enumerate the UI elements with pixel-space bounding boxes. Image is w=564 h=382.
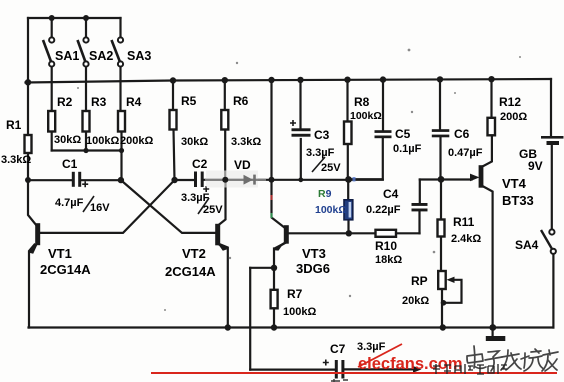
node top rail SA1: [49, 15, 55, 21]
artifact green tint on VT3 collector wire: [271, 213, 273, 218]
caption small text row: [433, 364, 507, 374]
wire VT3 emitter down: [274, 243, 286, 268]
node R4 tie junction: [119, 148, 124, 153]
node bus R12 junction: [488, 76, 494, 82]
wire R9 bottom lead: [347, 220, 349, 234]
wire VT3 emitter row left: [250, 267, 274, 269]
artifact red tint on VT3 collector wire: [271, 195, 273, 200]
node R6-VT2 collector junction: [222, 177, 228, 183]
artifact specks: [77, 49, 521, 311]
svg-text:RP: RP: [411, 274, 428, 288]
wire R11 top lead: [440, 179, 442, 219]
potentiometer RP body: [438, 271, 446, 289]
wire left rail to VT1 collector: [28, 180, 37, 226]
wire C6 top lead: [439, 81, 441, 129]
wire battery to SA4: [551, 145, 553, 230]
artifact blue speck near R8 junction: [353, 177, 356, 182]
wire R9 top lead: [347, 180, 349, 200]
node VT3 base R9 junction: [346, 230, 352, 236]
svg-text:200kΩ: 200kΩ: [120, 135, 153, 147]
svg-text:SA2: SA2: [89, 49, 113, 63]
svg-text:25V: 25V: [321, 162, 341, 174]
svg-text:R9: R9: [318, 188, 332, 200]
capacitor C2: [194, 172, 204, 188]
watermark handwritten char 电: [467, 346, 486, 368]
node left rail R1-C1 junction: [25, 177, 31, 183]
node bus left junction: [25, 79, 31, 85]
resistor R3: [83, 111, 90, 132]
svg-text:R11: R11: [453, 215, 475, 229]
svg-text:25V: 25V: [203, 204, 223, 216]
wire left rail mid: [27, 153, 29, 180]
wire RP wiper bracket: [444, 280, 462, 303]
svg-text:VT3: VT3: [302, 246, 326, 261]
svg-text:3.3kΩ: 3.3kΩ: [1, 154, 31, 166]
watermark handwritten char 发: [501, 350, 521, 370]
wire C4 bottom lead: [418, 212, 420, 234]
wire C3 bottom lead: [300, 139, 302, 180]
value slash C3: [312, 157, 325, 172]
wire SA1 drop: [51, 18, 53, 38]
resistor R7: [271, 290, 278, 309]
wire left rail upper: [27, 18, 29, 135]
wire VT1 emitter down: [29, 245, 35, 328]
node rail R7 junction: [271, 324, 277, 330]
node VT3 emitter junction: [271, 265, 277, 271]
wire top switch rail: [28, 17, 121, 19]
node bus R8 junction: [344, 77, 350, 83]
wire VD row C2 to C5 corner: [204, 179, 383, 181]
wire VT4 B2 to R12: [482, 135, 492, 167]
node bus C6 junction: [437, 76, 443, 82]
svg-text:9V: 9V: [528, 159, 543, 173]
wire down to C7 row: [249, 268, 251, 370]
watermark handwritten char 烧: [521, 349, 544, 371]
svg-text:C5: C5: [395, 127, 411, 141]
svg-text:16V: 16V: [90, 202, 110, 214]
svg-text:0.1µF: 0.1µF: [393, 143, 422, 155]
wire R3 bottom: [85, 132, 87, 151]
wire R4 tie down to C1 node: [120, 151, 122, 181]
node VD row VT3 collector junction: [269, 177, 275, 183]
resistor R10: [376, 230, 397, 237]
wire R6 top lead: [224, 81, 226, 111]
wire R6 bottom lead: [224, 130, 226, 180]
wire C5 bottom lead to node: [349, 139, 383, 180]
svg-text:C2: C2: [192, 157, 208, 171]
svg-text:BT33: BT33: [502, 193, 534, 208]
wire R7 top lead: [273, 268, 275, 290]
wire SA3 to R4: [119, 67, 121, 112]
wire C5 top lead: [382, 81, 384, 130]
watermark handwritten char 子: [485, 351, 502, 371]
svg-text:3.3µF: 3.3µF: [357, 341, 386, 353]
wire R12 top lead: [490, 81, 492, 118]
transistor VT2: [215, 224, 227, 251]
wire C7 output arrow line: [345, 368, 417, 370]
wire R2 bottom: [51, 132, 53, 151]
node rail ground junction: [489, 324, 496, 331]
svg-text:R7: R7: [287, 287, 303, 301]
battery GB: [541, 136, 564, 145]
capacitor C1 polarity plus: [82, 181, 88, 187]
wire R8 top lead: [346, 81, 348, 122]
svg-text:C7: C7: [330, 342, 346, 356]
svg-text:4.7µF: 4.7µF: [55, 197, 84, 209]
wire bus to VT3 collector: [272, 81, 286, 229]
switch SA2: [78, 37, 89, 66]
switch SA4: [541, 229, 556, 254]
wire base row VT3 to R10: [289, 232, 376, 234]
node rail VT2 emitter junction: [225, 324, 231, 330]
wire UJT emitter node horizontal: [420, 178, 472, 180]
svg-text:C3: C3: [314, 128, 330, 142]
transistor VT4 unijunction: [470, 165, 483, 188]
svg-text:20kΩ: 20kΩ: [402, 295, 429, 307]
svg-text:VT1: VT1: [48, 246, 72, 261]
node R3 tie junction: [83, 148, 88, 153]
capacitor C4: [412, 203, 428, 211]
wire SA2 to R3: [85, 67, 87, 112]
resistor R5: [170, 110, 177, 130]
wire C6 bottom lead: [439, 138, 441, 179]
watermark handwritten char 友: [542, 350, 558, 371]
artifact partial glyphs below C7: [331, 379, 348, 382]
svg-text:0.22µF: 0.22µF: [366, 204, 401, 216]
resistor R8: [344, 122, 352, 145]
node rail RP junction: [440, 324, 446, 330]
wire SA2 drop: [85, 18, 87, 38]
svg-text:R12: R12: [499, 95, 521, 109]
svg-text:R5: R5: [181, 94, 197, 108]
svg-text:2.4kΩ: 2.4kΩ: [451, 233, 481, 245]
node bus VT3 junction: [268, 77, 274, 83]
wire cross coupling C2 node to VT1 base: [39, 180, 175, 233]
node bus R5 junction: [170, 77, 176, 83]
transistor VT3: [274, 225, 289, 250]
wire cross coupling C1 node to VT2 base: [121, 180, 216, 233]
capacitor C5: [375, 130, 392, 138]
svg-text:R8: R8: [354, 95, 370, 109]
resistor R4: [118, 111, 125, 132]
svg-text:100kΩ: 100kΩ: [283, 306, 316, 318]
node top rail SA2: [83, 15, 89, 21]
node RP wiper bracket junction: [441, 300, 447, 306]
svg-text:SA3: SA3: [127, 49, 151, 63]
svg-text:100kΩ: 100kΩ: [315, 204, 347, 216]
svg-text:3DG6: 3DG6: [296, 261, 330, 276]
capacitor C3 polarity plus: [290, 120, 296, 126]
node bus R6 junction: [222, 77, 228, 83]
svg-text:R3: R3: [91, 95, 107, 109]
wire C7 left: [250, 369, 334, 371]
svg-text:2CG14A: 2CG14A: [165, 264, 216, 279]
capacitor C3: [292, 128, 311, 136]
capacitor C7: [335, 360, 345, 379]
wire R5 bottom lead: [174, 130, 175, 181]
resistor R11: [438, 220, 445, 237]
svg-text:R1: R1: [6, 118, 22, 132]
svg-text:SA1: SA1: [55, 49, 79, 63]
wire C2 left: [175, 179, 195, 181]
switch SA1: [43, 37, 54, 66]
wire R5 top lead: [172, 81, 174, 111]
wire main top bus: [26, 79, 552, 83]
svg-text:C4: C4: [383, 187, 399, 201]
svg-text:R6: R6: [233, 94, 249, 108]
svg-text:R4: R4: [126, 95, 142, 109]
node UJT emitter junction: [438, 176, 445, 183]
wire SA3 drop: [119, 18, 121, 38]
output arrow head: [413, 366, 422, 373]
svg-text:VT4: VT4: [502, 176, 527, 191]
capacitor C2 polarity plus: [203, 186, 209, 192]
resistor R12: [488, 118, 496, 136]
svg-text:18kΩ: 18kΩ: [375, 254, 402, 266]
wire VT2 collector: [218, 180, 226, 226]
resistor R2: [48, 111, 55, 132]
node R8-R9-C5 junction: [345, 176, 352, 183]
watermark red underline: [151, 372, 557, 374]
node bus C5 junction: [380, 76, 386, 82]
svg-text:0.47µF: 0.47µF: [448, 147, 483, 159]
wire C1 left: [28, 179, 72, 181]
wire R8 bottom lead: [347, 144, 349, 180]
wire SA4 bottom to rail: [552, 254, 554, 328]
svg-text:C6: C6: [454, 127, 470, 141]
svg-text:3.3kΩ: 3.3kΩ: [231, 136, 261, 148]
svg-text:VD: VD: [234, 158, 251, 172]
node C1-R4 junction: [118, 177, 124, 183]
wire R11 bottom to RP: [440, 237, 442, 272]
svg-text:R10: R10: [375, 239, 397, 253]
svg-text:SA4: SA4: [515, 238, 539, 252]
wire bottom ground rail: [29, 326, 554, 328]
switch SA3: [112, 37, 124, 66]
ground symbol: [486, 336, 506, 341]
resistor R9 highlighted blue: [344, 200, 353, 220]
wire C3 top lead: [299, 81, 301, 128]
svg-text:200Ω: 200Ω: [500, 111, 527, 123]
wire SA1 to R2: [51, 67, 53, 112]
svg-text:C1: C1: [62, 157, 78, 171]
diode VD: [205, 171, 266, 188]
value slash C2: [198, 198, 209, 214]
capacitor C1: [72, 172, 81, 187]
wire bus right corner to battery: [550, 79, 552, 136]
wire R2-R3-R4 tie: [52, 149, 122, 151]
resistor R6: [221, 110, 228, 130]
node bus C3 junction: [297, 77, 303, 83]
svg-text:VT2: VT2: [182, 246, 206, 261]
watermark red slash over C7 value: [358, 344, 402, 367]
transistor VT1: [29, 223, 40, 254]
svg-text:100kΩ: 100kΩ: [350, 110, 382, 122]
wire VT2 emitter down: [221, 245, 228, 328]
node R6-VT2 collector junction redraw over gray wire: [222, 177, 228, 183]
wire VT4 B1 to ground: [482, 186, 493, 337]
svg-text:100kΩ: 100kΩ: [86, 135, 119, 147]
svg-text:R2: R2: [57, 95, 73, 109]
wire base row R10 right to C4: [396, 232, 420, 234]
svg-text:30kΩ: 30kΩ: [181, 136, 208, 148]
capacitor C7 polarity plus: [323, 360, 329, 366]
potentiometer RP wiper arrow: [447, 277, 455, 283]
wire C4 top lead: [419, 180, 421, 203]
resistor R1: [25, 135, 32, 153]
node VD row C3 junction: [298, 177, 303, 182]
wire R4 bottom: [120, 132, 122, 151]
svg-text:2CG14A: 2CG14A: [40, 262, 91, 277]
value slash C1: [83, 196, 94, 212]
svg-text:3.3µF: 3.3µF: [306, 147, 335, 159]
wire R7 bottom lead: [273, 308, 275, 327]
wire C1 right: [81, 179, 121, 181]
capacitor C6: [432, 129, 450, 137]
svg-text:30kΩ: 30kΩ: [54, 134, 81, 146]
node C2-R5 junction: [171, 177, 177, 183]
wire RP bottom lead: [441, 289, 443, 328]
